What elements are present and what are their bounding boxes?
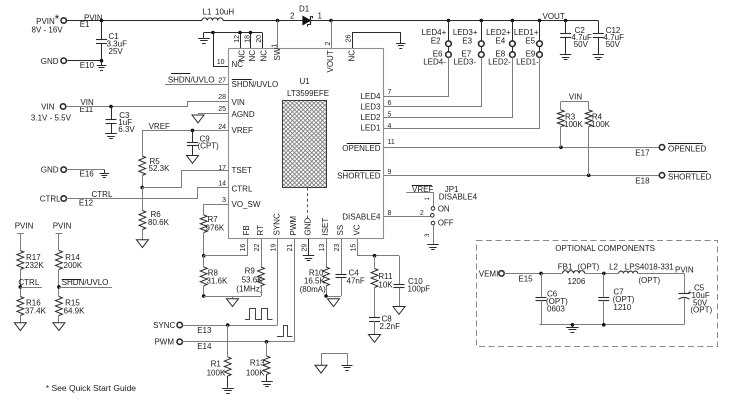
svg-text:4: 4 (388, 123, 392, 130)
svg-text:31.6K: 31.6K (206, 277, 228, 286)
ground at GND pin (303, 256, 315, 261)
U1 refdes (287, 77, 329, 98)
wire NC pin10 (214, 33, 229, 67)
node label SHDN/UVLO divider (57, 270, 112, 297)
U1 pin label AGND (232, 110, 255, 119)
wire net LED3 (384, 57, 482, 107)
resistor R13 (246, 342, 270, 381)
power flag PVIN col2 (53, 222, 72, 251)
U1 pin number 15 (351, 244, 358, 252)
resistor R6 (139, 187, 170, 239)
capacitor C10 (394, 256, 431, 307)
ground at JP1 (427, 225, 439, 250)
wire ISET (326, 239, 328, 267)
svg-text:L1: L1 (203, 7, 212, 16)
wire SHORTLED (384, 174, 659, 178)
svg-text:OPENLED: OPENLED (342, 144, 380, 153)
U1 pin label NC18 (248, 50, 257, 62)
svg-text:25V: 25V (109, 47, 124, 56)
U1 pin number 9 (388, 169, 392, 176)
svg-text:GND: GND (41, 166, 59, 175)
wire AGND pin (198, 113, 229, 115)
wire SW pin drop (277, 21, 279, 49)
wire E10 to ground (66, 59, 103, 63)
ground at ISET rail (328, 299, 340, 307)
wire PWM (182, 340, 294, 344)
U1 pin number 14 (218, 180, 226, 187)
svg-text:VREF: VREF (232, 126, 253, 135)
wire E16 (66, 170, 109, 178)
ground at C9 (187, 156, 199, 164)
node junction LED4+ column (447, 19, 451, 23)
svg-text:21: 21 (287, 244, 294, 252)
U1 pin number 11 (388, 139, 395, 146)
ground at R8 rail (227, 296, 239, 307)
svg-text:50V: 50V (606, 40, 621, 49)
resistor R10 (300, 267, 330, 294)
terminal E8 LED2- (488, 50, 515, 67)
svg-text:15: 15 (351, 244, 358, 252)
U1 pin label VC (353, 224, 362, 235)
wire net LED2 (384, 57, 513, 118)
svg-text:PVIN: PVIN (675, 265, 694, 274)
ground at L1 harness (198, 33, 210, 44)
U1 pin label FB (242, 225, 251, 235)
ground at R1 (222, 389, 234, 394)
resistor R15 (56, 297, 86, 323)
svg-text:37.4K: 37.4K (25, 307, 47, 316)
wire net LED4 (384, 57, 449, 96)
wire VOUT pin drop (331, 21, 333, 49)
capacitor C5 (679, 273, 713, 324)
wire R5 to node (140, 175, 144, 189)
U1 pin number 16 (240, 244, 247, 252)
terminal E15 VEMI (479, 270, 533, 284)
svg-text:100K: 100K (591, 120, 610, 129)
node junction SW (276, 19, 280, 23)
svg-text:(1MHz): (1MHz) (236, 285, 263, 294)
svg-text:14: 14 (218, 180, 226, 187)
svg-text:C5: C5 (694, 283, 705, 292)
svg-text:*: * (55, 12, 60, 26)
svg-text:VO_SW: VO_SW (232, 200, 261, 209)
svg-text:10K: 10K (378, 280, 393, 289)
svg-text:LED2: LED2 (360, 113, 381, 122)
U1 pin number 28 (218, 94, 226, 101)
ground tie symbol (315, 354, 353, 374)
ground at optional rail (566, 325, 579, 333)
capacitor C3 (105, 107, 135, 139)
svg-text:DISABLE4: DISABLE4 (342, 212, 381, 221)
svg-text:2: 2 (290, 12, 295, 21)
svg-text:0603: 0603 (547, 305, 565, 314)
svg-text:200K: 200K (64, 261, 83, 270)
svg-text:E18: E18 (635, 176, 650, 185)
svg-text:OFF: OFF (438, 219, 454, 228)
svg-text:FB1: FB1 (558, 262, 573, 271)
node junction LED3+ column (480, 19, 484, 23)
wire FB (204, 239, 248, 256)
svg-text:R1: R1 (211, 360, 222, 369)
svg-text:CTRL: CTRL (92, 190, 113, 199)
diode D1 (290, 4, 322, 26)
svg-text:LT3599EFE: LT3599EFE (287, 89, 329, 98)
terminal E18 SHORTLED (635, 172, 711, 186)
ground at R16 (14, 323, 26, 331)
svg-text:E17: E17 (635, 148, 650, 157)
svg-text:CTRL: CTRL (40, 194, 61, 203)
svg-text:E12: E12 (79, 198, 94, 207)
svg-text:FB: FB (242, 225, 251, 235)
wire SYNC pin drop (277, 239, 279, 325)
svg-text:LED1: LED1 (360, 124, 381, 133)
svg-text:2: 2 (325, 42, 332, 46)
terminal E16 GND (41, 166, 95, 179)
svg-text:DISABLE4: DISABLE4 (439, 193, 478, 202)
svg-text:53.6K: 53.6K (242, 276, 264, 285)
svg-text:52.3K: 52.3K (149, 164, 171, 173)
svg-text:OPTIONAL COMPONENTS: OPTIONAL COMPONENTS (555, 244, 655, 253)
terminal E6 LED4- (423, 50, 451, 67)
svg-text:SYNC: SYNC (153, 321, 175, 330)
svg-text:976K: 976K (206, 224, 225, 233)
svg-text:5: 5 (388, 112, 392, 119)
terminal E7 LED3- (453, 50, 484, 67)
svg-text:6.3V: 6.3V (118, 125, 135, 134)
ground at R15 (53, 323, 65, 331)
svg-text:80.6K: 80.6K (148, 218, 170, 227)
svg-text:25: 25 (218, 106, 226, 113)
wire LED4+ drop (448, 21, 450, 52)
wire R8-R9 rail (204, 286, 262, 297)
svg-text:2.2nF: 2.2nF (380, 322, 401, 331)
capacitor C9 (187, 130, 219, 155)
svg-text:L2: L2 (609, 262, 618, 271)
svg-text:22: 22 (254, 244, 261, 252)
U1 pin label VO_SW (232, 200, 261, 209)
U1 pin label LED2 (360, 113, 381, 122)
svg-text:VREF: VREF (149, 122, 170, 131)
svg-text:CTRL: CTRL (232, 185, 253, 194)
capacitor C1 (96, 21, 127, 61)
svg-text:ISET: ISET (321, 218, 330, 236)
U1 pin label NC10 (232, 60, 244, 69)
sync waveform glyph (245, 309, 273, 320)
svg-text:12: 12 (234, 35, 241, 43)
wire TSET (142, 171, 228, 188)
ground at R13 (261, 382, 273, 387)
U1 dashed gnd stem (307, 188, 309, 219)
wire R8 bottom (202, 286, 206, 298)
U1 pin number 2 (325, 42, 332, 46)
svg-text:SHDN/UVLO: SHDN/UVLO (232, 80, 279, 89)
U1 pin label SYNC (273, 213, 282, 235)
footnote (46, 383, 137, 393)
svg-text:* See Quick Start Guide: * See Quick Start Guide (46, 383, 137, 393)
svg-text:20: 20 (256, 35, 263, 43)
net label VIN R3R4 (561, 93, 589, 102)
svg-text:E2: E2 (431, 36, 441, 45)
U1 pin label VIN (232, 98, 246, 107)
svg-text:28: 28 (218, 94, 226, 101)
resistor R3 (557, 102, 583, 148)
wire LED1+ drop (539, 21, 541, 52)
svg-text:9: 9 (388, 169, 392, 176)
svg-text:10uH: 10uH (215, 7, 234, 16)
ferrite bead FB1 (558, 262, 600, 285)
wire optional gnd rail (539, 323, 684, 327)
wire PWM pin drop (294, 239, 296, 342)
capacitor C8 (369, 288, 400, 335)
svg-text:16: 16 (240, 244, 247, 252)
svg-text:TSET: TSET (232, 166, 253, 175)
svg-text:U1: U1 (300, 77, 311, 86)
inductor L1 (202, 7, 234, 20)
terminal E17 OPENLED (635, 144, 706, 158)
terminal E14 PWM (154, 338, 212, 351)
U1 pin number 24 (218, 124, 226, 131)
svg-text:VEMI: VEMI (479, 270, 499, 279)
wire GND pin (308, 239, 310, 255)
U1 pin label DISABLE4 (342, 212, 381, 221)
U1 pin number 21 (287, 244, 294, 252)
U1 pin label VOUT (326, 50, 335, 72)
svg-text:ON: ON (438, 205, 450, 214)
svg-text:100K: 100K (564, 120, 583, 129)
U1 pin number 26 (346, 35, 353, 43)
svg-text:LED2-: LED2- (488, 57, 511, 66)
terminal E5 LED1+ (514, 28, 542, 46)
capacitor C4 (336, 239, 365, 296)
wire VIN (66, 102, 229, 109)
wire net LED1 (384, 57, 540, 129)
svg-text:10: 10 (217, 59, 225, 66)
svg-text:1: 1 (318, 11, 323, 20)
terminal E2 LED4+ (422, 28, 452, 46)
U1 pin label LED1 (360, 124, 381, 133)
svg-text:PVIN: PVIN (53, 222, 72, 231)
U1 pin label NC20 (259, 50, 268, 62)
svg-text:LED4: LED4 (360, 92, 381, 101)
svg-text:(OPT): (OPT) (578, 262, 600, 271)
node label CTRL divider (18, 270, 42, 297)
wire VEMI rail (504, 272, 562, 276)
U1 pin label NC12 (237, 50, 246, 62)
svg-text:13: 13 (319, 244, 326, 252)
U1 pin label VREF (232, 126, 253, 135)
svg-text:SHORTLED: SHORTLED (337, 171, 381, 180)
U1 pin number 17 (218, 165, 226, 172)
U1 pin number 3 (222, 197, 226, 204)
wire R7 to FB rail (202, 233, 206, 258)
svg-text:E15: E15 (518, 274, 533, 283)
terminal E9 LED1- (516, 50, 542, 67)
svg-text:27: 27 (218, 77, 226, 84)
svg-text:CTRL: CTRL (18, 278, 39, 287)
svg-text:64.9K: 64.9K (64, 307, 86, 316)
terminal E4 LED2+ (486, 28, 515, 46)
terminal E1 PVIN (32, 12, 103, 34)
svg-text:E14: E14 (197, 342, 212, 351)
svg-text:VIN: VIN (569, 93, 583, 102)
wire LED3+ drop (481, 21, 483, 52)
svg-text:1210: 1210 (613, 303, 631, 312)
ground at C10 (393, 307, 405, 315)
svg-text:(OPT): (OPT) (690, 306, 712, 315)
svg-text:26: 26 (346, 35, 353, 43)
resistor R8 (200, 256, 228, 286)
svg-text:(CPT): (CPT) (198, 141, 220, 150)
terminal E3 LED3+ (453, 28, 484, 46)
svg-text:E13: E13 (197, 326, 212, 335)
optional components box (477, 241, 718, 347)
inductor L2 (609, 262, 674, 284)
svg-text:(80mA): (80mA) (300, 285, 327, 294)
svg-text:SYNC: SYNC (273, 213, 282, 235)
U1 pin number 1 (271, 44, 278, 48)
net label SHDN/UVLO stub (165, 74, 229, 85)
svg-text:232K: 232K (25, 261, 44, 270)
ground at C8 (369, 335, 381, 343)
U1 pin label PWM (289, 216, 298, 236)
U1 pin label LED4 (360, 92, 381, 101)
wire VO_SW (204, 205, 229, 216)
svg-text:LED3: LED3 (360, 103, 381, 112)
wire L2 to PVIN (638, 265, 694, 274)
svg-text:19: 19 (271, 244, 278, 252)
terminal E10 GND (41, 57, 95, 70)
U1 pin label RT (256, 225, 265, 236)
node junction LED2+ column (511, 19, 515, 23)
wire VREF (143, 129, 229, 156)
svg-text:23: 23 (334, 244, 341, 252)
svg-text:8: 8 (388, 210, 392, 217)
svg-text:29: 29 (302, 244, 309, 252)
U1 pin number 8 (388, 210, 392, 217)
U1 pin label OPENLED (342, 144, 380, 154)
resistor R4 (585, 102, 610, 176)
capacitor C6 (536, 273, 569, 324)
wire SYNC (182, 323, 277, 327)
svg-text:3: 3 (222, 197, 226, 204)
resistor R14 (56, 251, 83, 270)
svg-text:PVIN: PVIN (15, 222, 34, 231)
svg-text:1: 1 (271, 44, 278, 48)
svg-text:100K: 100K (246, 368, 265, 377)
node junction C2 (564, 19, 568, 23)
svg-text:GND: GND (304, 218, 313, 236)
wire ISET bottom rail (324, 286, 341, 298)
svg-text:NC: NC (248, 50, 257, 62)
U1 pin label SHORTLED (337, 171, 381, 181)
U1 pin number 23 (334, 244, 341, 252)
wire FB1 to L2 (585, 272, 619, 276)
svg-text:R9: R9 (245, 267, 256, 276)
node junction PVIN-C1 (100, 19, 104, 23)
node junction D1 cathode (329, 19, 333, 23)
svg-text:GND: GND (41, 57, 59, 66)
svg-text:18: 18 (245, 35, 252, 43)
wire LED2+ drop (512, 21, 514, 52)
svg-text:D1: D1 (299, 4, 310, 13)
svg-text:7: 7 (388, 89, 392, 96)
capacitor C2 (560, 21, 592, 60)
resistor R16 (17, 297, 47, 323)
U1 pin label GND (304, 218, 313, 236)
svg-text:8V - 16V: 8V - 16V (32, 26, 64, 35)
svg-text:VOUT: VOUT (326, 50, 335, 72)
svg-text:AGND: AGND (232, 110, 255, 119)
capacitor C7 (598, 273, 634, 324)
svg-text:(OPT): (OPT) (638, 276, 660, 285)
svg-text:11: 11 (388, 139, 395, 146)
U1 pin number 22 (254, 244, 261, 252)
svg-text:NC: NC (348, 50, 357, 62)
svg-text:E5: E5 (525, 36, 535, 45)
svg-text:VOUT: VOUT (543, 12, 565, 21)
net label VREF (149, 122, 170, 131)
svg-text:LED1-: LED1- (516, 57, 539, 66)
U1 pin label NC26 (348, 50, 357, 62)
U1 pin label LED3 (360, 103, 381, 112)
wire PVIN top rail (66, 20, 598, 22)
U1 pin number 25 (218, 106, 226, 113)
U1 pin number 12 (234, 35, 241, 43)
svg-text:100K: 100K (207, 368, 226, 377)
svg-text:R13: R13 (250, 358, 265, 367)
svg-text:E4: E4 (495, 36, 505, 45)
svg-text:100pF: 100pF (408, 285, 431, 294)
jumper JP1 (406, 185, 477, 237)
capacitor C12 (593, 21, 625, 60)
wire VC (358, 239, 400, 258)
svg-text:VC: VC (353, 224, 362, 235)
wire RT (261, 239, 263, 267)
net label VOUT (543, 12, 565, 21)
svg-text:PWM: PWM (154, 338, 174, 347)
svg-text:PWM: PWM (289, 216, 298, 236)
svg-text:SW: SW (273, 47, 282, 60)
U1 pin label TSET (232, 166, 253, 175)
U1 crosshatch die (283, 101, 327, 188)
svg-text:NC: NC (259, 50, 268, 62)
power flag PVIN col1 (15, 222, 34, 251)
svg-text:E16: E16 (80, 170, 95, 179)
svg-text:E1: E1 (80, 20, 90, 29)
svg-text:2: 2 (420, 210, 424, 217)
svg-text:E3: E3 (462, 36, 472, 45)
U1 pin number 19 (271, 244, 278, 252)
svg-text:3.1V - 5.5V: 3.1V - 5.5V (31, 113, 72, 122)
svg-text:E10: E10 (80, 61, 95, 70)
resistor R7 (200, 215, 225, 233)
U1 pin label SW (273, 47, 282, 60)
resistor R5 (139, 156, 170, 175)
resistor R9 (236, 267, 264, 294)
svg-text:NC: NC (237, 50, 246, 62)
terminal E13 SYNC (153, 321, 212, 335)
svg-text:LPS4018-331: LPS4018-331 (625, 262, 674, 271)
svg-text:RT: RT (256, 225, 265, 236)
U1 pin label SHDN/UVLO (232, 80, 279, 90)
svg-text:SS: SS (336, 225, 345, 236)
svg-text:47nF: 47nF (347, 277, 365, 286)
svg-text:50V: 50V (574, 40, 589, 49)
resistor R17 (17, 251, 44, 270)
wire DISABLE4 (384, 216, 430, 218)
wire OPENLED (384, 146, 659, 150)
U1 pin number 13 (319, 244, 326, 252)
